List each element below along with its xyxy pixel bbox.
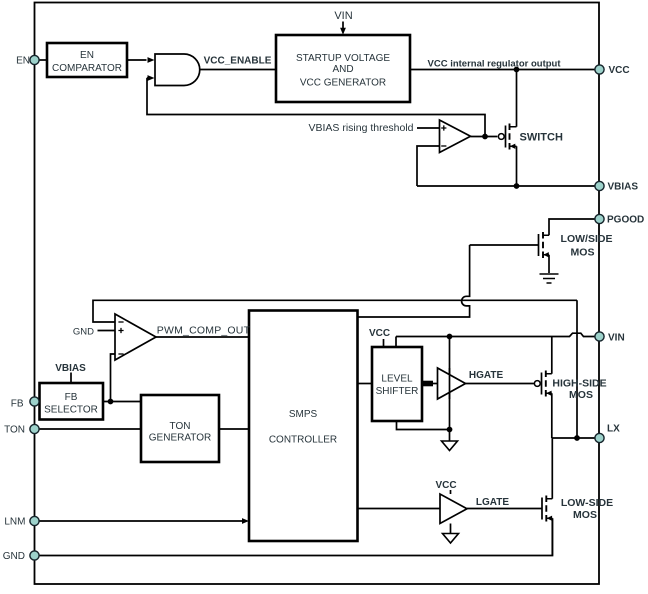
svg-text:TON: TON [4, 425, 25, 436]
svg-text:MOS: MOS [569, 389, 593, 401]
svg-text:LEVEL: LEVEL [381, 373, 413, 384]
svg-text:HGATE: HGATE [469, 370, 504, 381]
svg-text:VCC: VCC [435, 480, 456, 491]
svg-text:GENERATOR: GENERATOR [149, 432, 211, 443]
svg-text:STARTUP VOLTAGE: STARTUP VOLTAGE [296, 53, 390, 64]
svg-text:EN: EN [16, 56, 30, 67]
svg-text:VCC internal regulator output: VCC internal regulator output [428, 58, 562, 69]
svg-text:LOW-SIDE: LOW-SIDE [561, 497, 613, 509]
svg-text:EN: EN [80, 50, 94, 61]
svg-text:LNM: LNM [4, 517, 25, 528]
svg-text:GND: GND [73, 326, 94, 337]
svg-text:COMPARATOR: COMPARATOR [52, 63, 122, 74]
svg-text:GND: GND [3, 551, 25, 562]
svg-text:AND: AND [332, 64, 353, 75]
svg-text:SHIFTER: SHIFTER [376, 386, 419, 397]
svg-text:FB: FB [65, 392, 78, 403]
svg-text:SWITCH: SWITCH [520, 131, 563, 143]
svg-text:PWM_COMP_OUT: PWM_COMP_OUT [157, 324, 251, 336]
svg-text:PGOOD: PGOOD [607, 215, 644, 226]
svg-text:VCC GENERATOR: VCC GENERATOR [300, 77, 386, 88]
svg-text:SELECTOR: SELECTOR [44, 405, 98, 416]
svg-text:FB: FB [11, 399, 24, 410]
svg-text:TON: TON [170, 421, 191, 432]
svg-text:VBIAS: VBIAS [55, 363, 86, 374]
svg-text:MOS: MOS [573, 509, 597, 521]
svg-text:MOS: MOS [571, 246, 595, 258]
svg-text:VBIAS rising threshold: VBIAS rising threshold [308, 122, 413, 134]
svg-text:VBIAS: VBIAS [608, 182, 639, 193]
svg-text:CONTROLLER: CONTROLLER [269, 435, 337, 446]
svg-text:VCC: VCC [609, 65, 630, 76]
svg-text:SMPS: SMPS [289, 409, 318, 420]
svg-text:LGATE: LGATE [476, 497, 509, 508]
svg-text:HIGH-SIDE: HIGH-SIDE [552, 378, 606, 390]
svg-text:VIN: VIN [608, 332, 625, 343]
svg-text:VCC: VCC [369, 328, 390, 339]
svg-text:LOW/SIDE: LOW/SIDE [561, 233, 613, 245]
svg-text:VCC_ENABLE: VCC_ENABLE [204, 55, 272, 66]
svg-text:LX: LX [607, 424, 620, 435]
svg-text:VIN: VIN [334, 10, 352, 22]
